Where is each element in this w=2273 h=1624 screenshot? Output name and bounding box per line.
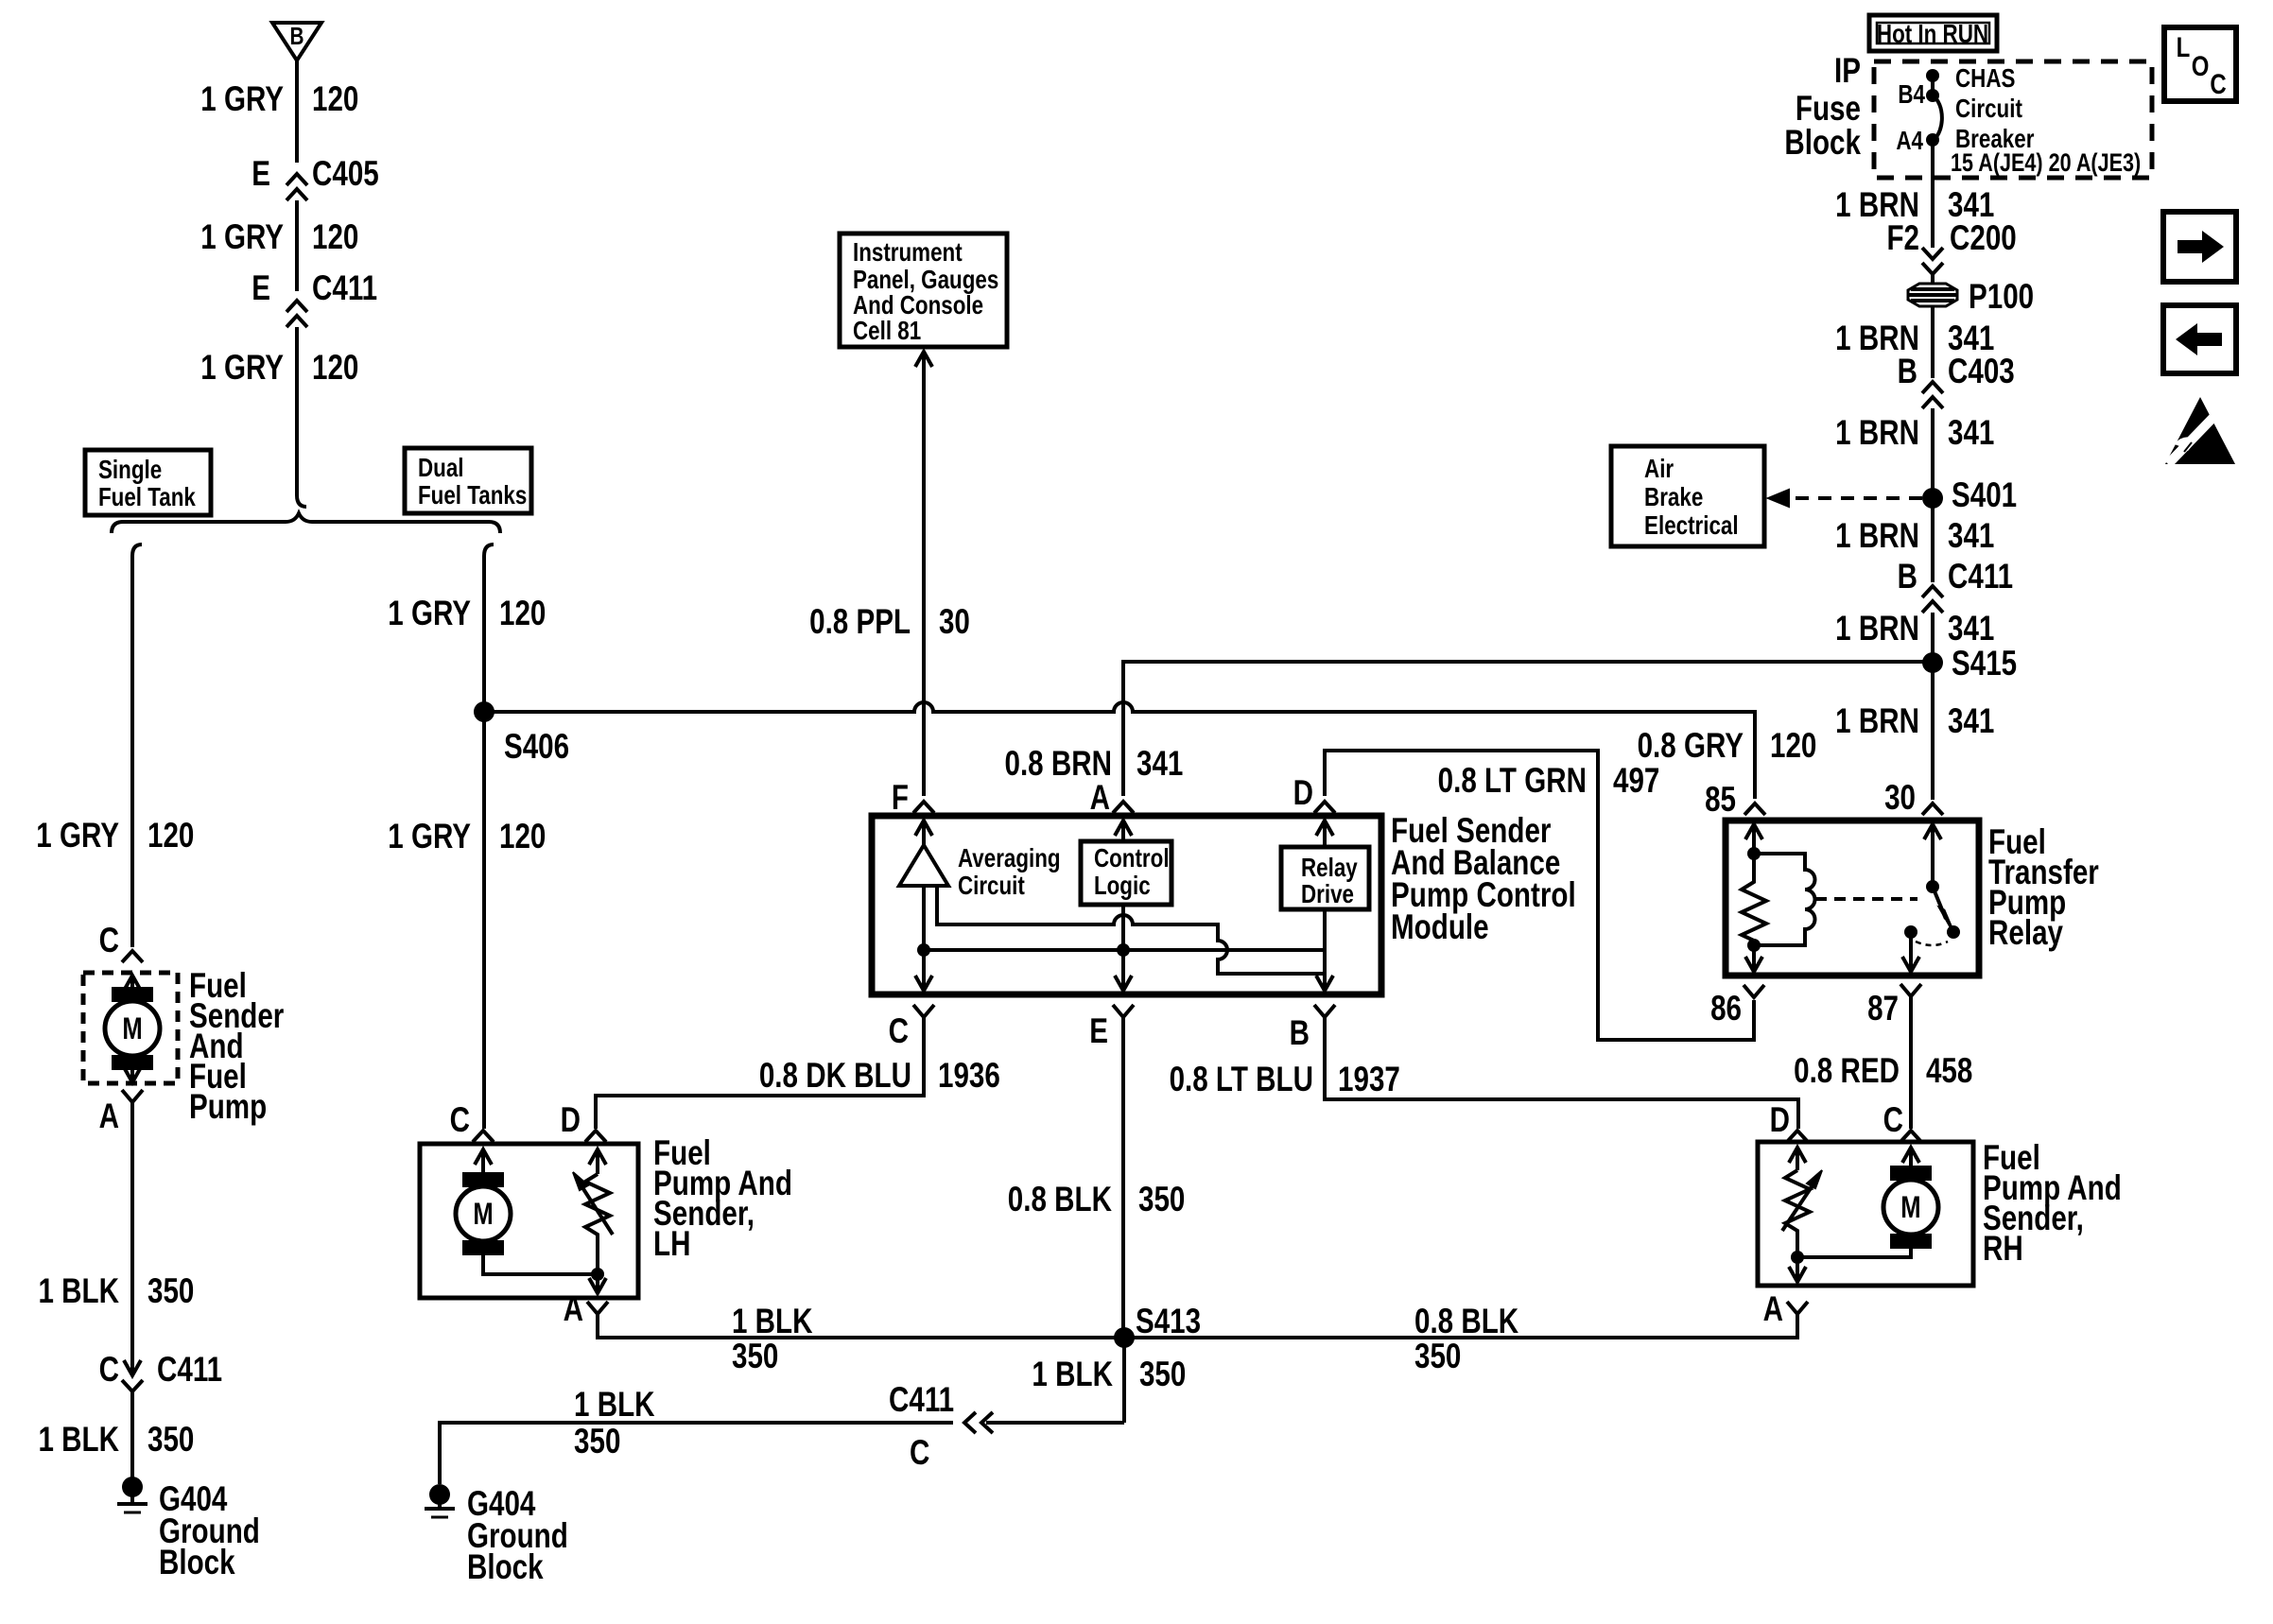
- pin C of fuel sender and fuel pump: [122, 951, 143, 962]
- switch arm end dot: [1947, 925, 1960, 939]
- pin E connector of module: [1113, 1005, 1134, 1017]
- component dashed box Fuel Sender And Fuel Pump: [83, 973, 178, 1083]
- svg-text:458: 458: [1926, 1052, 1972, 1091]
- svg-text:30: 30: [939, 603, 970, 642]
- svg-text:0.8 GRY: 0.8 GRY: [1638, 727, 1744, 766]
- svg-text:F2: F2: [1886, 219, 1919, 258]
- connector C405 (inline, pin E): [286, 174, 307, 185]
- svg-text:341: 341: [1948, 610, 1994, 648]
- wire 1 BRN 341 C411 to S415: [1931, 613, 1935, 663]
- pin 86 connector of relay: [1744, 985, 1764, 997]
- box Dual Fuel Tanks: [405, 448, 531, 513]
- wire hook at brace center: [297, 495, 306, 507]
- svg-text:A: A: [99, 1097, 119, 1136]
- wire 1 BLK 350 C411 to ground right: [440, 1423, 953, 1484]
- node B4 dot: [1926, 89, 1939, 102]
- connector C411 lower left (pin C): [130, 1361, 134, 1373]
- brace selector for single/dual fuel tanks: [112, 513, 500, 533]
- connector C411 (inline, pin E): [286, 301, 307, 312]
- pin D connector of LH pump: [585, 1131, 606, 1142]
- svg-text:Block: Block: [467, 1548, 544, 1587]
- arrow relay drive to pin D: [1323, 824, 1327, 847]
- svg-text:C411: C411: [1948, 558, 2013, 596]
- svg-text:1 BRN: 1 BRN: [1835, 414, 1919, 453]
- svg-text:350: 350: [1414, 1338, 1461, 1376]
- component box Fuel Sender And Balance Pump Control Module: [872, 816, 1381, 994]
- junction dot on pin C line: [917, 943, 930, 957]
- svg-text:Fuel Tanks: Fuel Tanks: [418, 481, 527, 510]
- icon box arrow right: [2163, 212, 2236, 282]
- svg-text:B: B: [1898, 353, 1917, 391]
- arrow relay pin 85 into coil: [1752, 828, 1756, 854]
- connector C403 (pin B): [1922, 382, 1943, 393]
- svg-text:P100: P100: [1969, 278, 2034, 317]
- svg-text:120: 120: [312, 80, 358, 119]
- svg-text:120: 120: [1770, 727, 1816, 766]
- junction dot on pin E line: [1117, 943, 1130, 957]
- svg-text:0.8 RED: 0.8 RED: [1794, 1052, 1900, 1091]
- arrow relay pin 30 to switch common: [1931, 828, 1935, 887]
- svg-text:C411: C411: [312, 269, 377, 308]
- svg-text:341: 341: [1948, 702, 1994, 741]
- relay coil: [1754, 854, 1815, 945]
- pin A connector of LH pump: [587, 1302, 608, 1314]
- motor M RH pump: [1890, 1166, 1932, 1181]
- wire 1 BLK 350 from C411 to ground: [130, 1391, 134, 1484]
- wiper arrow RH sender: [1782, 1180, 1816, 1231]
- svg-text:350: 350: [574, 1423, 620, 1461]
- pin C connector of LH pump: [473, 1131, 494, 1142]
- svg-text:1 GRY: 1 GRY: [200, 80, 284, 119]
- svg-text:1936: 1936: [938, 1057, 1000, 1096]
- internal bus wire C-E-relay drive: [924, 948, 1325, 952]
- node A4 dot: [1926, 133, 1939, 147]
- connector triangle B (page reference): [272, 23, 321, 60]
- svg-text:Averaging: Averaging: [958, 844, 1061, 873]
- pin C connector of module: [913, 1005, 934, 1017]
- svg-text:0.8 LT GRN: 0.8 LT GRN: [1438, 762, 1587, 801]
- svg-text:RH: RH: [1983, 1230, 2023, 1269]
- svg-text:S401: S401: [1952, 476, 2017, 515]
- svg-text:B: B: [1898, 558, 1917, 596]
- svg-text:C: C: [889, 1012, 909, 1051]
- svg-text:1937: 1937: [1338, 1061, 1400, 1099]
- arrow coil to relay pin 86: [1752, 945, 1756, 968]
- wire 0.8 DK BLU 1936 module pin C to LH pump pin D: [596, 1017, 924, 1129]
- junction dot RH sender: [1791, 1251, 1804, 1264]
- svg-text:1 GRY: 1 GRY: [200, 218, 284, 257]
- svg-text:350: 350: [732, 1338, 778, 1376]
- svg-text:C200: C200: [1950, 219, 2017, 258]
- arrow into motor (pin C side): [130, 977, 134, 1004]
- svg-text:15 A(JE4) 20 A(JE3): 15 A(JE4) 20 A(JE3): [1951, 149, 2141, 178]
- svg-text:1 BLK: 1 BLK: [574, 1386, 655, 1425]
- wire 1 GRY 120 segment C411 to fuel tank brace: [295, 327, 299, 495]
- svg-text:1 BRN: 1 BRN: [1835, 517, 1919, 556]
- arrow from averaging circuit to pin F: [922, 824, 926, 845]
- svg-text:350: 350: [147, 1421, 194, 1460]
- svg-text:Circuit: Circuit: [1955, 95, 2022, 124]
- connector C200 (pin F2): [1922, 248, 1943, 259]
- svg-text:Control: Control: [1094, 844, 1170, 873]
- svg-text:1 BRN: 1 BRN: [1835, 610, 1919, 648]
- pin 85 connector of relay: [1744, 803, 1765, 815]
- svg-text:A: A: [1090, 779, 1110, 818]
- wire 1 BRN 341 from fuse block to C200: [1931, 140, 1935, 248]
- svg-text:A: A: [1763, 1290, 1783, 1329]
- svg-text:0.8 DK BLU: 0.8 DK BLU: [759, 1057, 911, 1096]
- connector C411 right column (pin B): [1922, 586, 1943, 597]
- arrow control logic to pin A: [1121, 824, 1125, 841]
- svg-text:86: 86: [1710, 990, 1742, 1028]
- wire 1 GRY 120 from S406 to LH pump pin C: [482, 712, 486, 1129]
- junction S406: [474, 701, 495, 722]
- wire LH motor to sender junction: [483, 1255, 598, 1274]
- junction S413: [1114, 1327, 1135, 1348]
- svg-text:D: D: [561, 1101, 581, 1140]
- svg-text:F: F: [892, 779, 909, 818]
- ground G404 (right): [429, 1484, 450, 1505]
- pin D connector of module: [1314, 802, 1335, 813]
- wire control logic to pin E inside module: [1121, 905, 1125, 987]
- wire 0.8 BRN 341 from S415 to module pin A: [1123, 662, 1933, 796]
- svg-text:LH: LH: [653, 1225, 690, 1264]
- pin C connector of RH pump: [1900, 1131, 1921, 1142]
- svg-text:85: 85: [1705, 781, 1736, 820]
- box Control Logic: [1081, 841, 1171, 905]
- svg-text:M: M: [1900, 1191, 1920, 1224]
- svg-text:350: 350: [147, 1272, 194, 1311]
- svg-text:0.8 LT BLU: 0.8 LT BLU: [1170, 1061, 1313, 1099]
- arrow into RH sender resistor: [1796, 1151, 1799, 1170]
- svg-text:Cell 81: Cell 81: [853, 317, 921, 346]
- pin 30 connector of relay: [1922, 803, 1943, 815]
- svg-text:Single: Single: [98, 456, 162, 485]
- wire 0.8 PPL 30 from module pin F to instrument panel: [915, 352, 932, 367]
- svg-text:120: 120: [147, 817, 194, 855]
- svg-text:D: D: [1770, 1101, 1790, 1140]
- circuit breaker CHAS element: [1933, 95, 1942, 140]
- svg-text:Module: Module: [1391, 908, 1489, 947]
- svg-text:Electrical: Electrical: [1644, 511, 1739, 541]
- svg-text:B4: B4: [1898, 80, 1925, 110]
- svg-text:120: 120: [499, 595, 546, 633]
- svg-text:B: B: [289, 23, 304, 50]
- svg-text:497: 497: [1613, 762, 1659, 801]
- svg-text:Hot In RUN: Hot In RUN: [1877, 20, 1988, 49]
- grommet P100: [1908, 284, 1957, 306]
- dashed box IP Fuse Block: [1874, 61, 2152, 178]
- variable resistor LH sender: [585, 1174, 610, 1274]
- dashed actuation line coil to switch: [1815, 897, 1917, 901]
- box Relay Drive: [1281, 847, 1369, 909]
- svg-text:L: L: [2177, 30, 2191, 62]
- wiper arrow LH sender: [579, 1182, 613, 1235]
- svg-text:C405: C405: [312, 155, 379, 194]
- svg-text:C: C: [99, 1351, 119, 1390]
- wire 1 GRY 120 single tank branch: [130, 556, 134, 947]
- svg-text:341: 341: [1136, 745, 1183, 784]
- svg-text:Drive: Drive: [1301, 880, 1354, 909]
- wire contact to relay pin 87: [1909, 932, 1913, 968]
- arrow RH sender to pin A: [1796, 1257, 1799, 1278]
- ground G404 (left): [122, 1477, 143, 1497]
- pin A of fuel sender and fuel pump: [122, 1090, 143, 1102]
- wire 1 BLK 350 S413 down: [1122, 1338, 1126, 1423]
- switch contact 87 dot: [1904, 925, 1917, 939]
- wire averaging circuit to pin C inside module: [922, 886, 926, 987]
- svg-text:120: 120: [499, 818, 546, 856]
- junction S415: [1922, 652, 1943, 673]
- wire 1 BRN 341 P100 to C403: [1931, 306, 1935, 378]
- icon box arrow left: [2163, 305, 2236, 373]
- svg-text:S413: S413: [1136, 1303, 1201, 1341]
- svg-text:C: C: [1883, 1101, 1903, 1140]
- pin A connector of RH pump: [1787, 1302, 1808, 1314]
- wire 0.8 LT BLU 1937 module pin B to RH pump pin D: [1325, 1017, 1798, 1129]
- icon ESD warning triangle: [2165, 397, 2235, 464]
- resistor inside relay: [1742, 854, 1766, 945]
- svg-text:C403: C403: [1948, 353, 2015, 391]
- pin F connector of module: [913, 802, 934, 813]
- svg-text:1 BLK: 1 BLK: [38, 1272, 119, 1311]
- svg-text:A: A: [564, 1290, 583, 1329]
- wire 1 GRY 120 segment from triangle B to C405: [295, 60, 299, 163]
- wire hook dual-tank branch: [484, 544, 494, 556]
- wire 0.8 BLK 350 module pin E to S413: [1121, 1017, 1125, 1338]
- svg-text:Relay: Relay: [1301, 854, 1358, 883]
- svg-text:0.8 BRN: 0.8 BRN: [1005, 745, 1112, 784]
- svg-text:1 BLK: 1 BLK: [1032, 1356, 1113, 1394]
- svg-text:Logic: Logic: [1094, 872, 1151, 901]
- svg-text:0.8 BLK: 0.8 BLK: [1008, 1181, 1112, 1219]
- svg-text:E: E: [252, 155, 270, 194]
- svg-text:Pump: Pump: [189, 1088, 267, 1127]
- svg-text:Block: Block: [1784, 124, 1861, 163]
- svg-text:Air: Air: [1644, 455, 1674, 484]
- box Hot In RUN: [1869, 15, 1997, 51]
- svg-text:C411: C411: [157, 1351, 222, 1390]
- svg-text:E: E: [1089, 1012, 1108, 1051]
- svg-text:IP: IP: [1834, 52, 1861, 91]
- svg-text:120: 120: [312, 218, 358, 257]
- variable resistor RH sender: [1785, 1170, 1810, 1257]
- svg-text:M: M: [122, 1012, 142, 1045]
- wire relay drive to pin B inside module: [1323, 909, 1327, 987]
- svg-text:Circuit: Circuit: [958, 872, 1025, 901]
- svg-text:341: 341: [1948, 414, 1994, 453]
- connector C411 bottom (pin C): [981, 1412, 993, 1433]
- wire S406 to relay pin 85 (0.8 GRY 120): [484, 702, 1755, 799]
- svg-text:O: O: [2192, 49, 2210, 81]
- svg-text:1 GRY: 1 GRY: [388, 818, 471, 856]
- switch arm with arrowhead: [1933, 887, 1946, 919]
- arrow out of motor to pin A: [130, 1070, 134, 1080]
- arrow LH sender to pin A: [596, 1274, 599, 1289]
- svg-text:30: 30: [1884, 779, 1916, 818]
- svg-text:341: 341: [1948, 517, 1994, 556]
- svg-text:1 GRY: 1 GRY: [388, 595, 471, 633]
- svg-text:C: C: [450, 1101, 470, 1140]
- svg-text:S415: S415: [1952, 645, 2017, 683]
- svg-text:C: C: [910, 1434, 929, 1473]
- arrow into LH sender resistor: [596, 1153, 599, 1174]
- svg-text:Dual: Dual: [418, 454, 464, 483]
- internal wire averaging output to pin B (hops E line and bus): [937, 886, 1325, 974]
- wire 1 BLK 350 LH pump pin A to S413: [598, 1314, 1124, 1338]
- svg-text:120: 120: [312, 349, 358, 388]
- svg-text:C: C: [99, 922, 119, 960]
- wire 0.8 LT GRN 497 from module pin D to relay pin 86: [1325, 751, 1754, 1040]
- svg-text:A4: A4: [1896, 127, 1923, 156]
- svg-text:1 GRY: 1 GRY: [36, 817, 119, 855]
- svg-text:350: 350: [1138, 1181, 1185, 1219]
- svg-text:0.8 PPL: 0.8 PPL: [809, 603, 911, 642]
- wire segment C200 to P100: [1931, 274, 1935, 284]
- junction dot coil top: [1747, 847, 1761, 860]
- junction dot coil bottom: [1747, 939, 1761, 952]
- svg-text:87: 87: [1867, 990, 1899, 1028]
- arrow into RH motor: [1909, 1151, 1913, 1169]
- pin A connector of module: [1113, 802, 1134, 813]
- svg-text:Instrument: Instrument: [853, 238, 963, 268]
- wire RH motor to sender junction: [1797, 1249, 1911, 1257]
- junction dot LH sender: [591, 1268, 604, 1281]
- component box Fuel Pump And Sender RH: [1758, 1142, 1973, 1286]
- wire 1 BRN 341 S415 to relay pin 30: [1931, 663, 1935, 800]
- svg-text:1 GRY: 1 GRY: [200, 349, 284, 388]
- svg-text:Relay: Relay: [1988, 914, 2063, 953]
- wire 1 GRY 120 segment C405 to C411: [295, 200, 299, 291]
- dashed switch travel arc: [1916, 942, 1948, 945]
- svg-text:1 BLK: 1 BLK: [38, 1421, 119, 1460]
- wire 0.8 RED 458 relay pin 87 to RH pump pin C: [1909, 996, 1913, 1129]
- svg-text:Block: Block: [159, 1544, 235, 1582]
- switch common dot: [1926, 880, 1939, 893]
- pin D connector of RH pump: [1787, 1131, 1808, 1142]
- wire 1 BRN 341 C403 to S401: [1931, 408, 1935, 498]
- svg-text:1 BRN: 1 BRN: [1835, 702, 1919, 741]
- component box Fuel Pump And Sender LH: [420, 1144, 638, 1298]
- node CHAS feed dot: [1926, 69, 1939, 82]
- icon box LOC: [2164, 27, 2236, 101]
- wire S413 to C411 bottom: [986, 1421, 1124, 1425]
- wire 0.8 BLK 350 RH pump pin A to S413: [1124, 1314, 1797, 1338]
- box Instrument Panel Gauges And Console Cell 81: [840, 233, 1007, 347]
- svg-text:D: D: [1293, 774, 1313, 813]
- svg-text:1 BLK: 1 BLK: [732, 1303, 813, 1341]
- arrow into LH motor: [481, 1153, 485, 1172]
- wire 1 GRY 120 dual branch to S406: [482, 556, 486, 712]
- svg-text:C411: C411: [889, 1381, 954, 1420]
- svg-text:Fuel Tank: Fuel Tank: [98, 483, 197, 512]
- svg-text:C: C: [2210, 67, 2226, 99]
- svg-text:M: M: [473, 1198, 493, 1231]
- svg-text:350: 350: [1139, 1356, 1186, 1394]
- svg-text:S406: S406: [504, 728, 569, 767]
- pin 87 connector of relay: [1900, 984, 1921, 996]
- box Single Fuel Tank: [85, 450, 211, 515]
- wire 1 BRN 341 S401 to C411: [1931, 498, 1935, 582]
- wire 1 BLK 350 from pin A to C411: [130, 1102, 134, 1361]
- box Air Brake Electrical: [1611, 446, 1764, 546]
- dashed arrow S401 to air brake electrical: [1783, 496, 1922, 500]
- motor M LH pump: [462, 1172, 504, 1187]
- wire hook single-tank branch: [132, 544, 142, 556]
- motor M fuel pump (single tank): [112, 987, 153, 1002]
- op-amp averaging circuit triangle: [899, 845, 948, 886]
- svg-text:E: E: [252, 269, 270, 308]
- svg-text:Brake: Brake: [1644, 483, 1703, 512]
- component box Fuel Transfer Pump Relay: [1726, 821, 1979, 976]
- svg-text:Fuse: Fuse: [1796, 90, 1861, 129]
- pin B connector of module: [1314, 1005, 1335, 1017]
- junction S401: [1922, 488, 1943, 509]
- svg-text:0.8 BLK: 0.8 BLK: [1414, 1303, 1518, 1341]
- svg-text:B: B: [1290, 1014, 1310, 1053]
- svg-text:CHAS: CHAS: [1955, 64, 2015, 94]
